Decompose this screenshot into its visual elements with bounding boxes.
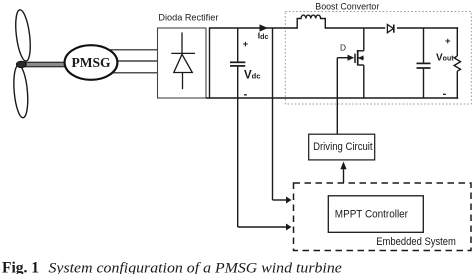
- svg-text:Fig. 1: Fig. 1: [2, 260, 39, 274]
- svg-text:System configuration of a PMSG: System configuration of a PMSG wind turb…: [49, 261, 343, 274]
- svg-text:-: -: [443, 88, 447, 100]
- svg-text:Driving Circuit: Driving Circuit: [313, 141, 373, 153]
- svg-text:Boost Convertor: Boost Convertor: [315, 2, 379, 12]
- svg-text:PMSG: PMSG: [72, 55, 111, 70]
- svg-text:+: +: [243, 39, 249, 50]
- svg-text:Dioda Rectifier: Dioda Rectifier: [158, 13, 218, 23]
- svg-text:D: D: [340, 43, 346, 53]
- svg-text:-: -: [244, 89, 248, 101]
- svg-text:MPPT Controller: MPPT Controller: [335, 208, 408, 220]
- svg-text:Embedded System: Embedded System: [376, 236, 456, 248]
- svg-text:+: +: [445, 36, 451, 47]
- svg-text:Vdc: Vdc: [244, 69, 260, 81]
